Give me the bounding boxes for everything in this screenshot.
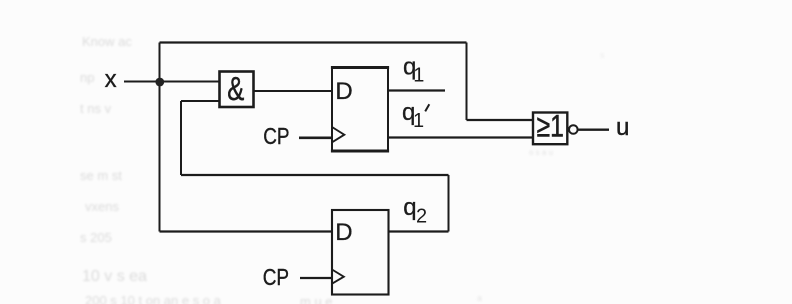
- svg-text:a: a: [477, 293, 482, 303]
- svg-text:Know ac: Know ac: [82, 34, 132, 49]
- svg-text:o s a u: o s a u: [529, 148, 553, 157]
- wire q2 output: [389, 230, 449, 232]
- wire q1' to OR gate lower input: [388, 136, 533, 138]
- wire bottom feedback to FF2 D input: [160, 230, 333, 232]
- label q1: [403, 54, 424, 87]
- svg-text:D: D: [335, 219, 352, 246]
- svg-text:t ns v: t ns v: [80, 101, 112, 116]
- svg-text:200 s 10 t on an e s o a: 200 s 10 t on an e s o a: [85, 293, 222, 304]
- label q2: [403, 194, 427, 228]
- svg-text:2: 2: [416, 206, 427, 228]
- inverter bubble at OR output: [569, 125, 578, 134]
- wire OR output to u: [578, 128, 610, 130]
- svg-text:1: 1: [413, 64, 424, 86]
- d-flip-flop FF1 box: [331, 68, 389, 152]
- svg-text:m u e: m u e: [300, 294, 333, 304]
- and-gate & symbol: [227, 71, 244, 108]
- svg-text:se m st: se m st: [80, 168, 122, 183]
- wire CP1 clock input: [299, 137, 332, 140]
- label x: [105, 66, 117, 93]
- label CP (FF1 clock): [263, 124, 289, 149]
- svg-text:s 205: s 205: [80, 230, 112, 245]
- wire q2 loop horizontal: [181, 174, 449, 176]
- wire q1 stub: [388, 89, 445, 91]
- clock triangle FF1: [332, 127, 344, 142]
- or-gate >=1 symbol: [537, 108, 564, 144]
- wire CP2 clock input: [300, 277, 332, 279]
- d-flip-flop FF2 box: [332, 210, 389, 295]
- and-gate box: [220, 72, 254, 108]
- svg-text:q: q: [403, 194, 416, 221]
- wire right feedback vertical: [466, 43, 468, 121]
- svg-text:np: np: [80, 70, 94, 85]
- wire to OR gate upper input: [467, 119, 534, 121]
- svg-text:CP: CP: [263, 124, 289, 149]
- svg-text:D: D: [335, 78, 352, 105]
- svg-text:≥1: ≥1: [537, 108, 564, 144]
- wire feedback vertical at x node: [159, 43, 161, 232]
- svg-text:x: x: [105, 66, 117, 93]
- svg-text:s: s: [600, 50, 605, 60]
- wire q2 loop vertical left: [180, 101, 182, 175]
- label D (FF2): [335, 219, 352, 246]
- wire x input to AND gate: [124, 81, 220, 83]
- or-gate box: [533, 113, 567, 145]
- label CP (FF2 clock): [263, 265, 289, 290]
- clock triangle FF2: [332, 270, 344, 284]
- svg-text:vxens: vxens: [85, 199, 119, 214]
- svg-text:&: &: [227, 71, 244, 108]
- label D (FF1): [335, 78, 352, 105]
- svg-text:CP: CP: [263, 265, 289, 290]
- wire top feedback horizontal: [160, 41, 467, 43]
- wire AND output to FF1 D input: [254, 90, 333, 92]
- label u: [616, 114, 629, 141]
- svg-text:u: u: [616, 114, 629, 141]
- node: input junction dot: [155, 78, 164, 87]
- wire q2 loop vertical right: [448, 175, 450, 232]
- wire AND gate lower input: [181, 100, 220, 102]
- background ghost text (scan bleed-through): [80, 34, 605, 304]
- label q1': [402, 99, 429, 132]
- svg-text:10 v s ea: 10 v s ea: [82, 268, 147, 285]
- svg-text:1: 1: [413, 110, 424, 132]
